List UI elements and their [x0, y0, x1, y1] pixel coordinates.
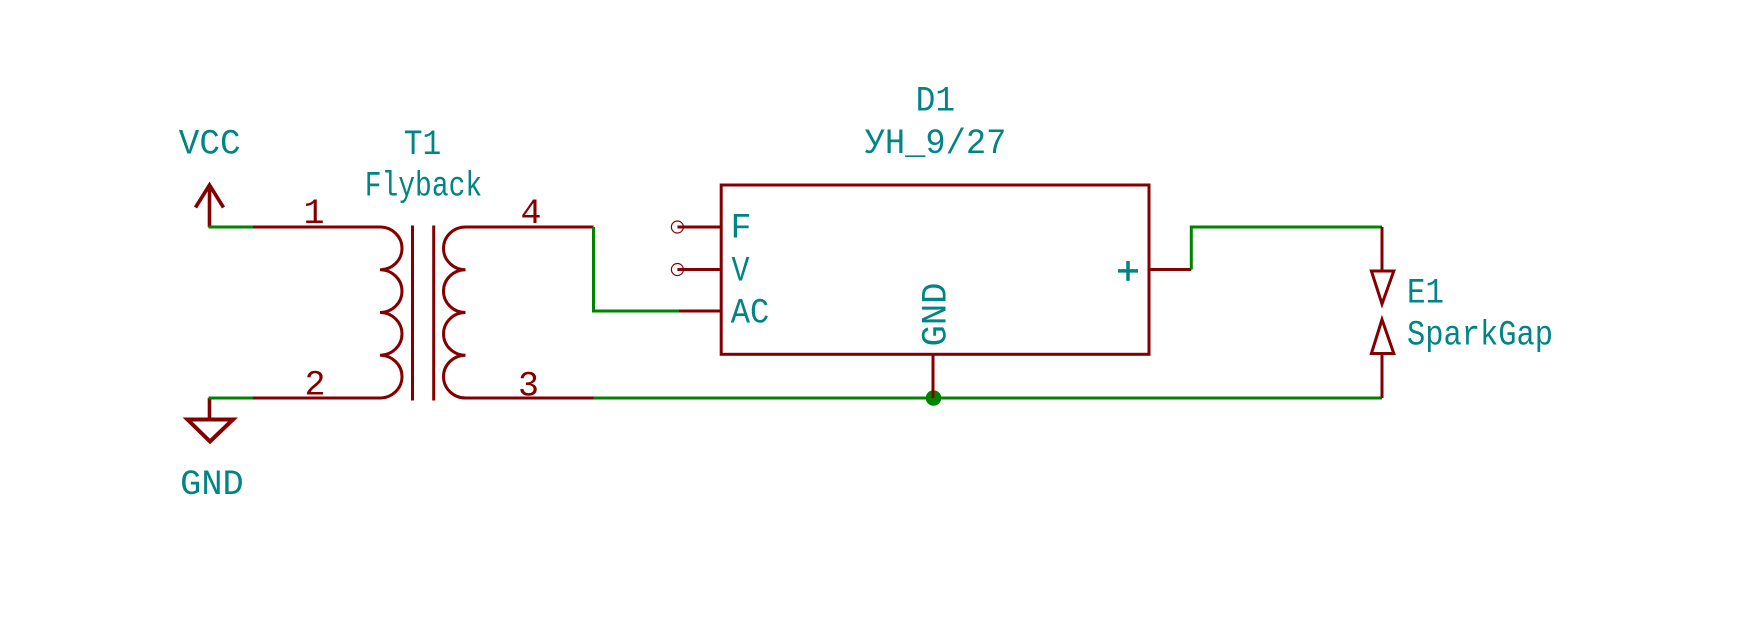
svg-text:1: 1: [304, 194, 325, 234]
D1 pin name +: [1118, 261, 1138, 281]
spark gap E1 top pin: [1381, 227, 1384, 271]
svg-text:T1: T1: [404, 125, 442, 165]
IC D1 body: [721, 185, 1149, 354]
svg-text:SparkGap: SparkGap: [1407, 316, 1553, 356]
svg-text:УН_9/27: УН_9/27: [865, 124, 1007, 164]
D1 pin +: [1149, 268, 1191, 271]
transformer T1 primary winding: [380, 227, 402, 398]
D1 pin V: [671, 264, 721, 276]
svg-text:3: 3: [518, 366, 539, 406]
ground symbol GND: [188, 398, 234, 442]
svg-text:4: 4: [521, 194, 542, 234]
wire T1 pin 3 to E1 (GND net): [594, 397, 1383, 400]
svg-text:F: F: [731, 208, 752, 248]
wire VCC to T1 pin 1: [209, 226, 254, 229]
svg-text:AC: AC: [731, 293, 770, 333]
D1 pin GND: [932, 354, 935, 398]
spark gap E1 upper electrode: [1371, 271, 1393, 304]
transformer T1 secondary winding: [444, 227, 466, 398]
svg-text:Flyback: Flyback: [365, 167, 483, 207]
spark gap E1 lower electrode: [1371, 320, 1393, 354]
T1 pin 2: [253, 397, 380, 400]
svg-text:GND: GND: [917, 283, 957, 347]
svg-text:D1: D1: [916, 81, 956, 121]
transformer T1 core: [413, 226, 434, 401]
T1 pin 4: [466, 226, 594, 229]
wire D1 + pin to E1: [1191, 227, 1382, 270]
power symbol VCC: [196, 185, 224, 227]
wire T1 pin 4 to D1 AC pin: [594, 227, 680, 311]
T1 pin 3: [466, 397, 594, 400]
wire GND to T1 pin 2: [209, 397, 254, 400]
svg-text:V: V: [732, 252, 750, 292]
D1 pin AC: [679, 310, 721, 313]
T1 pin 1: [253, 226, 380, 229]
spark gap E1 bottom pin: [1381, 354, 1384, 399]
svg-text:2: 2: [305, 365, 326, 405]
D1 pin F: [671, 221, 721, 233]
junction at D1 GND: [926, 390, 942, 406]
svg-text:GND: GND: [180, 465, 244, 505]
svg-text:VCC: VCC: [179, 125, 241, 165]
svg-text:E1: E1: [1407, 273, 1444, 313]
